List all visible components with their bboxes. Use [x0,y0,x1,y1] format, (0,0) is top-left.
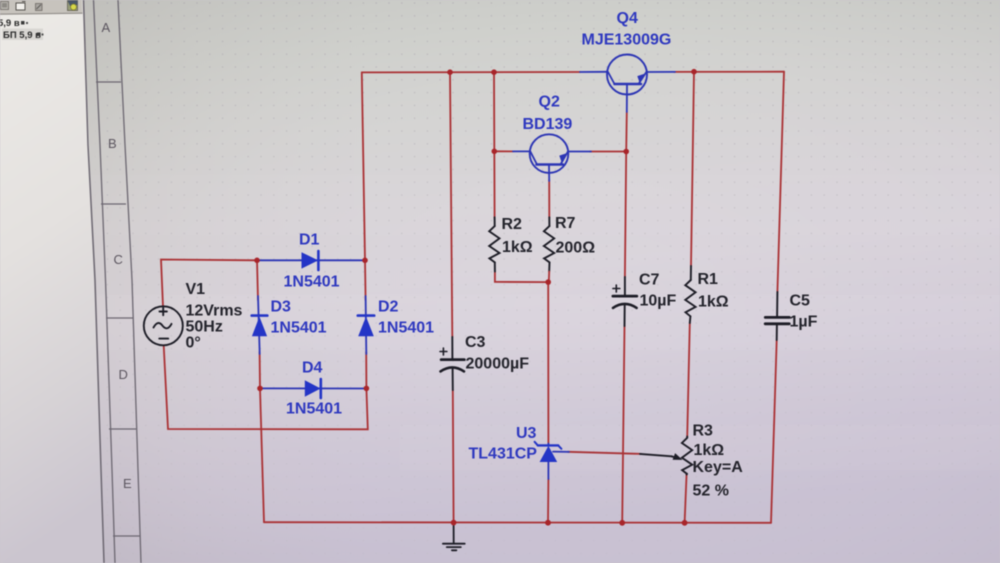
svg-text:1kΩ: 1kΩ [502,239,533,256]
svg-text:A: A [102,20,111,35]
junction node ground bus U3 [545,520,551,526]
svg-text:V1: V1 [186,281,206,298]
capacitor C7 [613,277,637,326]
wire Q4 base lower [625,112,628,152]
svg-text:B: B [108,136,117,151]
wire top rail right segment [674,71,784,73]
wire bridge left column [257,260,258,300]
svg-text:C7: C7 [639,272,660,289]
wire riser top-left to bridge [362,72,365,260]
wire bridge right column [364,260,367,300]
shunt regulator U3 [535,442,569,479]
svg-text:TL431CP: TL431CP [469,445,538,462]
svg-text:MJE13009G: MJE13009G [582,31,672,48]
diode D3 [252,296,268,354]
wire C3 column lower [452,390,455,523]
resistor R1 [685,266,695,323]
wire Q2 emitter to node [590,151,626,153]
svg-text:D3: D3 [271,299,292,316]
svg-text:Q4: Q4 [617,10,638,27]
svg-text:D4: D4 [302,360,323,377]
junction node top rail C3 [447,69,453,75]
svg-text:D2: D2 [378,299,399,316]
junction node bridge bottom-left [257,386,263,392]
toolbox tree row 1 [0,18,28,29]
svg-text:БП 5,9 в: БП 5,9 в [3,30,41,41]
light band lower right [400,425,1000,470]
ground [443,523,465,550]
wire R1 column upper [691,72,694,266]
row divider D/E [109,428,136,430]
junction node bridge top-left [254,258,260,264]
wire C7 column lower [622,326,624,523]
wire R7 column upper [548,180,550,218]
junction node ground bus C3 [451,520,457,526]
toolbar icon 2 (open sheet) [16,2,26,11]
svg-text:C: C [114,252,123,267]
wire R1 to R3 link [687,323,690,437]
resistor R2 [489,217,499,271]
wire R7 to U3 column [547,282,549,443]
wire top rail left segment [362,71,580,73]
svg-text:12Vrms: 12Vrms [186,303,243,320]
wire bridge right column lower [365,352,367,388]
toolbar icon 1 (thumbnail) [1,2,9,10]
junction node Q2 emitter / Q4 base [623,149,629,155]
light band upper [0,175,1000,235]
wire C5 column lower [771,340,777,523]
sheet left border double line [84,0,116,563]
wire bridge left column lower [259,352,261,388]
svg-text:R1: R1 [698,271,719,288]
wire V1 bottom return [164,346,368,430]
capacitor C3 [440,337,464,390]
junction node ground bus C7 [619,520,625,526]
left design-toolbox panel [0,0,104,563]
transistor Q2 [513,134,591,181]
svg-text:C3: C3 [465,334,486,351]
toolbar strip [0,0,83,15]
svg-text:1N5401: 1N5401 [378,320,434,337]
svg-text:52 %: 52 % [693,483,729,500]
wire R2 column upper [493,72,496,218]
R3 wiper arrow [640,453,683,460]
junction node top rail R2 [491,69,497,75]
row divider B/C [101,203,126,205]
svg-text:R2: R2 [502,216,523,233]
diode D4 [260,379,366,398]
junction node top rail R1 [691,69,697,75]
svg-text:20000µF: 20000µF [466,356,530,373]
wire Q2 collector from R2 column [494,150,513,152]
svg-text:BD139: BD139 [523,116,573,133]
svg-text:1N5401: 1N5401 [284,274,340,291]
wire C5 column upper [777,72,784,292]
svg-text:U3: U3 [516,425,537,442]
svg-text:R7: R7 [555,215,576,232]
diode D1 [257,251,365,270]
resistor R7 [544,217,554,282]
wire U3 reference middle segment [568,452,641,454]
row divider A/B [96,81,121,83]
wire bottom ground bus [264,521,771,524]
svg-text:200Ω: 200Ω [556,240,596,257]
svg-text:1N5401: 1N5401 [286,401,342,418]
svg-text:D1: D1 [299,232,320,249]
light band middle [0,295,1000,350]
row divider C/D [106,317,133,319]
svg-text:1kΩ: 1kΩ [694,442,725,459]
toolbar icon 4 (coloured logo) [68,1,78,11]
wire C3 column upper [450,72,452,337]
svg-text:1µF: 1µF [790,314,818,331]
svg-text:C5: C5 [790,293,811,310]
svg-text:R3: R3 [693,423,714,440]
svg-text:1N5401: 1N5401 [271,320,327,337]
svg-text:50Hz: 50Hz [186,319,223,336]
capacitor C5 [765,292,789,340]
toolbox tree row 2 (selected) [2,29,44,42]
junction node Q2 collector [492,149,498,155]
junction node bridge bottom-right [364,386,370,392]
junction node R2 R7 bottom [545,279,551,285]
wire R2 bottom corner link [495,272,548,283]
svg-text:1kΩ: 1kΩ [698,294,729,311]
wire DC minus riser [260,388,264,522]
transistor Q4 [580,55,675,113]
potentiometer R3 [682,437,692,475]
row-letter column right edge [118,0,141,563]
wire V1 top [161,260,257,307]
junction node bridge top-right [362,258,368,264]
row divider E/F [113,535,140,537]
svg-text:5,9 в: 5,9 в [0,18,20,29]
junction node ground bus R3 [682,520,688,526]
svg-text:Q2: Q2 [539,94,560,111]
svg-text:10µF: 10µF [640,293,677,310]
toolbar icon 3 (small glyph) [36,4,43,11]
svg-text:Key=A: Key=A [693,459,744,476]
svg-text:E: E [123,476,132,491]
diode D2 [358,296,374,354]
svg-text:0°: 0° [186,335,201,352]
AC source V1 [144,306,183,345]
wire R3 to bus [685,474,687,523]
wire C7 column upper [625,152,626,278]
svg-text:D: D [119,367,128,382]
wire U3 anode to bus [547,479,549,523]
